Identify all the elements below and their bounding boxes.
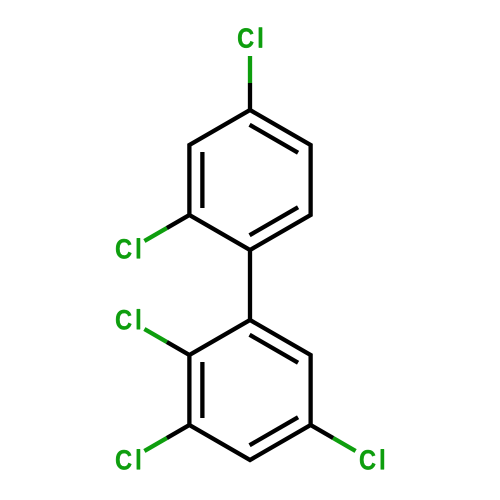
label Cl (4-position, top): [238, 27, 262, 47]
bond C5'-Cl (ring2 lower-right, black half): [311, 425, 334, 438]
bond C4-Cl (top, green half): [248, 56, 252, 83]
bond C2-Cl (ring1 left, black half): [167, 215, 190, 228]
ring 1 double bond inner line (NE edge): [250, 125, 299, 153]
benzene ring 1 (top) outline: [189, 110, 310, 250]
ring 1 double bond inner line (SE edge): [250, 207, 299, 235]
bond C2'-Cl (ring2 upper-left, green half): [144, 329, 166, 342]
bond C2-Cl (ring1 left, green half): [144, 228, 166, 241]
ring 2 double bond inner line (NE edge): [250, 335, 299, 363]
label Cl (2'-position, ring2 upper-left): [116, 309, 140, 329]
bond C3'-Cl (ring2 lower-left, green half): [144, 438, 166, 451]
bond C5'-Cl (ring2 lower-right, green half): [333, 438, 355, 451]
benzene ring 2 (bottom) outline: [189, 320, 310, 460]
label Cl (3'-position, ring2 lower-left): [116, 449, 140, 469]
ring 1 double bond inner line (W edge): [200, 152, 204, 208]
ring 2 double bond inner line (SE edge): [250, 417, 299, 445]
label Cl (2-position, ring1 left): [116, 238, 140, 258]
biphenyl C1-C1' bond (inter-ring): [248, 250, 252, 320]
label Cl (5'-position, ring2 lower-right): [360, 449, 384, 469]
bond C3'-Cl (ring2 lower-left, black half): [167, 425, 190, 438]
bond C4-Cl (top, black half): [248, 83, 252, 110]
bond C2'-Cl (ring2 upper-left, black half): [167, 342, 190, 355]
ring 2 double bond inner line (W edge): [200, 362, 204, 418]
